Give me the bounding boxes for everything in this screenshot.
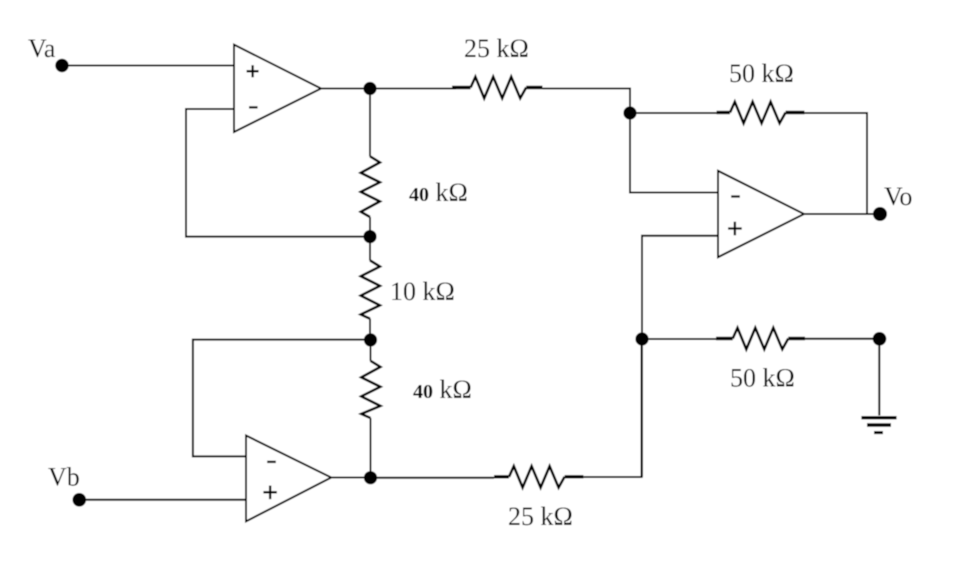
wire R4 to node F — [369, 319, 371, 340]
wire R5 to node G — [370, 418, 372, 478]
wire node D to ground — [878, 339, 880, 416]
wire node G to R6 — [371, 477, 495, 479]
node C — [635, 332, 648, 345]
U2 pin label + — [728, 222, 742, 236]
svg-text:10 kΩ: 10 kΩ — [390, 277, 455, 306]
wire node A down to R3 — [369, 89, 371, 157]
resistor R7 50 kOhm — [716, 328, 805, 349]
node B — [623, 106, 636, 119]
node Vb — [73, 493, 87, 507]
node E — [363, 230, 376, 243]
wire U2 output to node Vo — [804, 213, 880, 215]
wire node C to R7 — [642, 338, 716, 340]
op-amp U2 — [718, 171, 804, 257]
wire R3 to node E — [369, 217, 371, 237]
resistor R5 40 kOhm — [361, 361, 380, 418]
U3 pin label - — [267, 461, 276, 463]
node Va — [55, 59, 68, 72]
op-amp U1 — [234, 45, 321, 132]
wire node B to R2 — [630, 112, 717, 114]
node F — [364, 333, 377, 346]
svg-text:50 kΩ: 50 kΩ — [730, 364, 795, 393]
U1 pin label - — [249, 106, 258, 108]
svg-text:Vb: Vb — [48, 463, 80, 492]
resistor R1 25 kOhm — [452, 77, 543, 98]
node Vo — [873, 207, 887, 221]
wire node B to U2 inverting input — [630, 113, 718, 193]
wire U1 output to node A — [321, 88, 456, 90]
wire U3 feedback — [193, 340, 371, 457]
wire node E to R4 — [369, 237, 371, 261]
node A (U1 output junction) — [363, 82, 376, 95]
wire U3 output to node G — [331, 477, 370, 479]
wire R7 to node D — [805, 338, 880, 340]
resistor R2 50 kOhm feedback — [717, 102, 805, 123]
ground — [861, 418, 896, 433]
wire R1 to corner — [543, 89, 631, 114]
svg-text:Vo: Vo — [884, 182, 912, 211]
svg-text:50 kΩ: 50 kΩ — [729, 59, 794, 88]
wire R2 to U2 output — [805, 113, 868, 214]
U1 pin label + — [247, 65, 259, 77]
wire U1 feedback — [186, 109, 370, 237]
resistor R4 10 kOhm — [361, 260, 380, 318]
svg-text:25 kΩ: 25 kΩ — [464, 34, 529, 63]
wire node F to R5 — [370, 340, 372, 361]
svg-text:25 kΩ: 25 kΩ — [508, 502, 573, 531]
wire Va to U1 noninverting input — [62, 65, 234, 67]
wire R6 to node C riser — [583, 339, 641, 477]
node G (U3 output junction) — [364, 471, 377, 484]
U3 pin label + — [263, 486, 276, 500]
wire U2 noninverting input — [642, 236, 718, 477]
svg-text:Va: Va — [28, 34, 56, 63]
wire Vb to U3 noninverting input — [79, 499, 246, 501]
U2 pin label - — [731, 195, 740, 197]
resistor R3 40 kOhm — [361, 156, 380, 217]
op-amp U3 — [246, 436, 331, 522]
resistor R6 25 kOhm — [494, 466, 583, 487]
node D — [873, 332, 887, 346]
